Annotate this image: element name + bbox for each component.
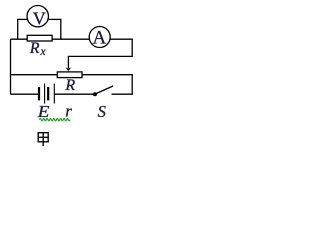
svg-text:r: r: [65, 102, 72, 121]
svg-text:R: R: [64, 77, 75, 94]
svg-text:E: E: [37, 102, 50, 121]
svg-text:V: V: [33, 9, 46, 29]
svg-text:S: S: [98, 102, 106, 121]
svg-text:A: A: [93, 27, 107, 48]
